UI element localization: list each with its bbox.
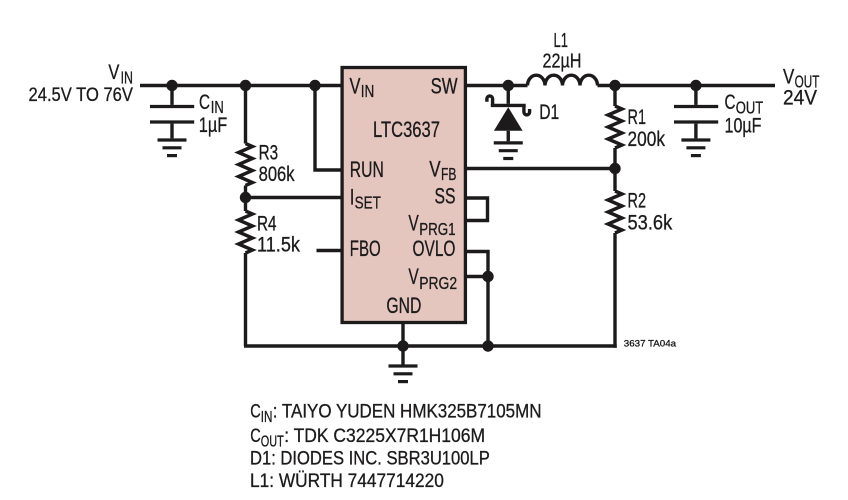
svg-text:R4: R4 bbox=[257, 211, 276, 235]
svg-text:D1: DIODES INC. SBR3U100LP: D1: DIODES INC. SBR3U100LP bbox=[250, 447, 490, 468]
svg-text:SW: SW bbox=[431, 74, 458, 99]
svg-text:IN: IN bbox=[261, 408, 273, 425]
svg-text:C: C bbox=[199, 89, 210, 113]
svg-text:OVLO: OVLO bbox=[413, 237, 456, 261]
svg-text:3637 TA04a: 3637 TA04a bbox=[624, 339, 677, 350]
svg-text:SS: SS bbox=[435, 185, 456, 209]
svg-text:C: C bbox=[250, 400, 260, 421]
svg-text:RUN: RUN bbox=[350, 158, 384, 182]
svg-text:R1: R1 bbox=[628, 104, 646, 129]
svg-text:V: V bbox=[408, 266, 419, 290]
svg-text:: TAIYO YUDEN HMK325B7105MN: : TAIYO YUDEN HMK325B7105MN bbox=[273, 400, 542, 421]
svg-text:FBO: FBO bbox=[350, 236, 381, 260]
svg-text:IN: IN bbox=[361, 83, 374, 102]
svg-text:I: I bbox=[350, 186, 355, 210]
svg-text:PRG2: PRG2 bbox=[419, 274, 457, 293]
svg-text:: TDK C3225X7R1H106M: : TDK C3225X7R1H106M bbox=[284, 424, 485, 446]
svg-text:200k: 200k bbox=[628, 127, 666, 151]
svg-text:C: C bbox=[725, 89, 736, 113]
svg-text:R2: R2 bbox=[628, 188, 646, 213]
svg-text:10µF: 10µF bbox=[725, 114, 762, 138]
svg-text:V: V bbox=[108, 60, 119, 83]
svg-text:R3: R3 bbox=[259, 140, 278, 164]
svg-text:L1: WÜRTH 7447714220: L1: WÜRTH 7447714220 bbox=[250, 470, 444, 491]
svg-text:1µF: 1µF bbox=[199, 114, 227, 138]
svg-text:V: V bbox=[408, 212, 419, 236]
svg-text:806k: 806k bbox=[259, 163, 295, 187]
svg-text:11.5k: 11.5k bbox=[257, 233, 300, 257]
svg-text:D1: D1 bbox=[539, 100, 559, 124]
svg-text:V: V bbox=[350, 74, 361, 99]
svg-text:24V: 24V bbox=[783, 87, 818, 110]
svg-text:LTC3637: LTC3637 bbox=[373, 118, 440, 143]
svg-text:FB: FB bbox=[441, 165, 456, 185]
svg-text:GND: GND bbox=[386, 295, 421, 319]
svg-text:24.5V TO 76V: 24.5V TO 76V bbox=[29, 84, 133, 106]
svg-text:SET: SET bbox=[355, 194, 382, 213]
svg-text:V: V bbox=[429, 157, 441, 182]
svg-text:53.6k: 53.6k bbox=[628, 211, 673, 235]
svg-text:C: C bbox=[250, 425, 260, 446]
svg-text:22µH: 22µH bbox=[543, 48, 582, 71]
